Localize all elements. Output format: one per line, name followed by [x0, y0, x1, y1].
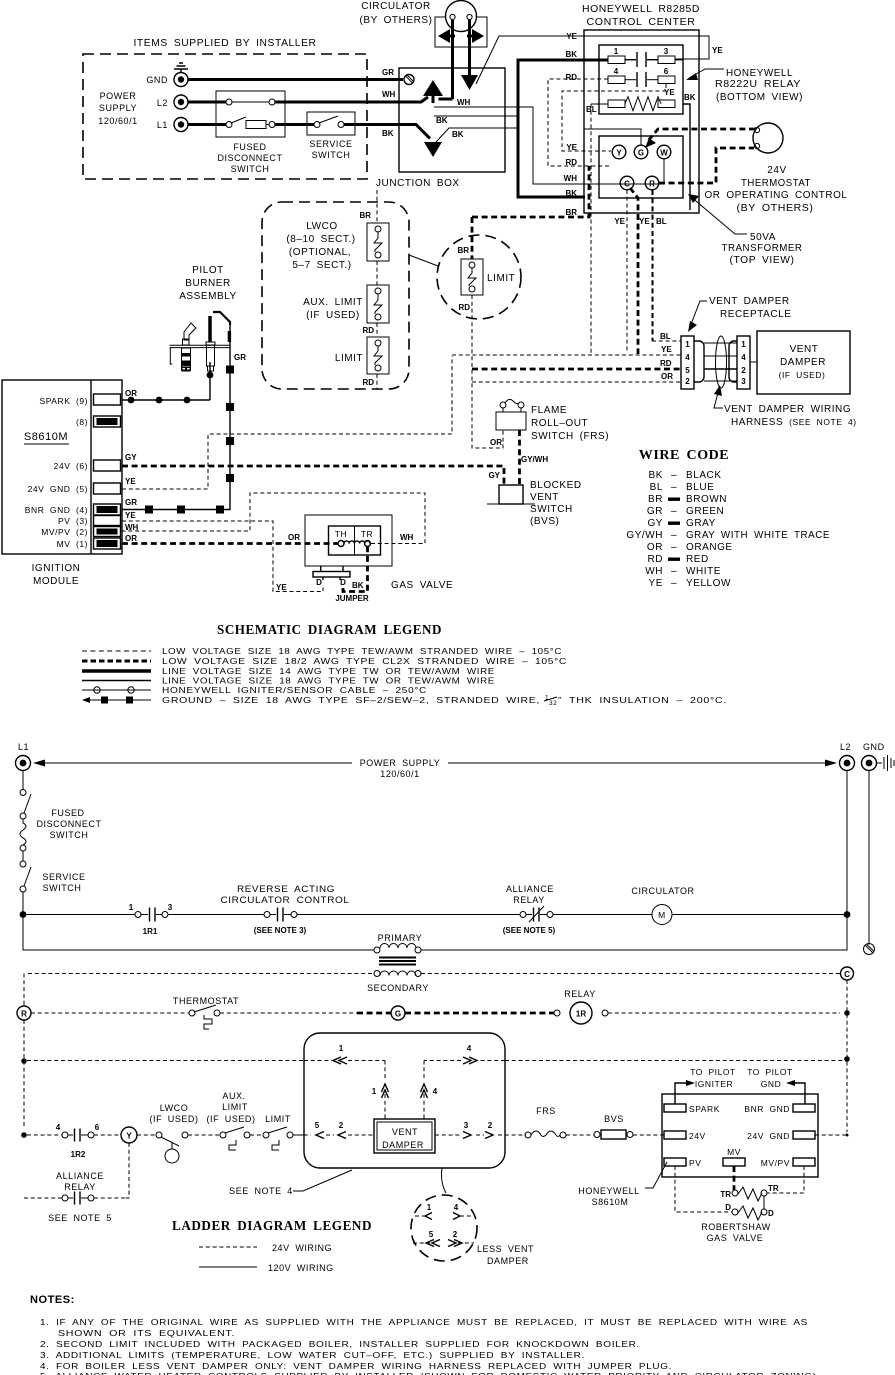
svg-text:4: 4 — [433, 1087, 438, 1096]
svg-text:D: D — [340, 578, 346, 587]
svg-text:HARNESS (SEE NOTE 4): HARNESS (SEE NOTE 4) — [731, 417, 857, 428]
svg-text:BL: BL — [656, 217, 667, 226]
svg-text:TO PILOT: TO PILOT — [747, 1067, 793, 1077]
svg-text:AUX.: AUX. — [222, 1091, 245, 1101]
svg-text:GR: GR — [647, 506, 663, 517]
svg-text:POWER SUPPLY: POWER SUPPLY — [360, 758, 441, 768]
svg-text:5: 5 — [315, 1121, 320, 1130]
svg-text:BR: BR — [648, 494, 663, 505]
svg-text:R: R — [21, 1010, 27, 1019]
svg-text:OR: OR — [288, 533, 300, 542]
svg-text:D: D — [316, 578, 322, 587]
svg-text:BK: BK — [352, 581, 364, 590]
svg-text:RD: RD — [565, 73, 577, 82]
svg-text:1R: 1R — [576, 1010, 586, 1019]
svg-text:(BY OTHERS): (BY OTHERS) — [737, 203, 814, 214]
svg-text:24V: 24V — [767, 165, 786, 176]
svg-text:TO PILOT: TO PILOT — [690, 1067, 736, 1077]
svg-text:2: 2 — [488, 1121, 493, 1130]
svg-text:VENT: VENT — [392, 1127, 418, 1137]
svg-text:LIMIT: LIMIT — [222, 1102, 248, 1112]
svg-text:G: G — [638, 149, 644, 158]
svg-text:BROWN: BROWN — [686, 494, 727, 505]
svg-text:RD: RD — [647, 554, 663, 565]
svg-text:RD: RD — [362, 378, 374, 387]
svg-text:VENT: VENT — [790, 344, 819, 355]
svg-text:BK: BK — [649, 470, 663, 481]
svg-text:SERVICE: SERVICE — [42, 872, 85, 882]
svg-text:MODULE: MODULE — [33, 576, 79, 587]
svg-text:YE: YE — [664, 88, 675, 97]
svg-text:2. SECOND LIMIT INCLUDED WITH: 2. SECOND LIMIT INCLUDED WITH PACKAGED B… — [40, 1339, 640, 1349]
svg-text:RELAY: RELAY — [564, 989, 596, 999]
svg-text:HONEYWELL IGNITER/SENSOR CABLE: HONEYWELL IGNITER/SENSOR CABLE – 250°C — [162, 685, 427, 695]
svg-text:C: C — [844, 970, 850, 979]
svg-text:YE: YE — [712, 46, 723, 55]
svg-text:VENT DAMPER WIRING: VENT DAMPER WIRING — [724, 404, 851, 415]
svg-text:(IF USED): (IF USED) — [149, 1114, 198, 1124]
svg-text:24V GND (5): 24V GND (5) — [28, 484, 88, 494]
svg-text:RELAY: RELAY — [513, 895, 545, 905]
svg-text:BLOCKED: BLOCKED — [530, 480, 582, 491]
svg-text:D: D — [768, 1209, 774, 1218]
svg-text:4: 4 — [467, 1044, 472, 1053]
svg-text:OR: OR — [647, 542, 663, 553]
svg-text:SWITCH: SWITCH — [231, 164, 270, 174]
svg-text:(TOP VIEW): (TOP VIEW) — [730, 255, 795, 266]
svg-text:WH: WH — [564, 174, 578, 183]
svg-text:GRAY: GRAY — [686, 518, 716, 529]
svg-text:BL: BL — [660, 332, 671, 341]
svg-text:CIRCULATOR: CIRCULATOR — [361, 1, 431, 12]
svg-text:SUPPLY: SUPPLY — [99, 103, 137, 113]
svg-text:RD: RD — [362, 326, 374, 335]
svg-text:GND: GND — [146, 75, 168, 85]
svg-text:ALLIANCE: ALLIANCE — [506, 884, 554, 894]
svg-text:YE: YE — [661, 345, 672, 354]
svg-text:BK: BK — [436, 116, 448, 125]
svg-text:24V (6): 24V (6) — [54, 461, 88, 471]
svg-text:24V: 24V — [689, 1131, 706, 1141]
svg-text:DAMPER: DAMPER — [382, 1140, 424, 1150]
svg-text:ROLL–OUT: ROLL–OUT — [531, 418, 588, 429]
svg-text:LIMIT: LIMIT — [265, 1114, 291, 1124]
svg-text:2: 2 — [741, 366, 746, 375]
svg-text:FRS: FRS — [536, 1106, 556, 1116]
svg-text:L2: L2 — [157, 98, 168, 108]
svg-text:4: 4 — [685, 353, 690, 362]
svg-text:FLAME: FLAME — [531, 405, 567, 416]
svg-text:OR: OR — [490, 438, 502, 447]
svg-text:4: 4 — [454, 1203, 459, 1212]
svg-text:GR: GR — [125, 498, 137, 507]
svg-text:LWCO: LWCO — [160, 1103, 189, 1113]
svg-text:120V WIRING: 120V WIRING — [268, 1263, 334, 1273]
svg-text:YE: YE — [639, 217, 650, 226]
svg-text:50VA: 50VA — [750, 232, 776, 243]
svg-text:(BVS): (BVS) — [530, 516, 559, 527]
svg-text:2: 2 — [339, 1121, 344, 1130]
svg-text:OR: OR — [661, 372, 673, 381]
svg-text:–: – — [671, 578, 677, 589]
svg-text:SCHEMATIC DIAGRAM LEGEND: SCHEMATIC DIAGRAM LEGEND — [217, 622, 442, 637]
svg-text:3: 3 — [168, 903, 173, 912]
svg-text:1: 1 — [685, 340, 690, 349]
svg-text:YE: YE — [614, 217, 625, 226]
svg-text:ALLIANCE: ALLIANCE — [56, 1171, 104, 1181]
svg-text:GND: GND — [761, 1079, 782, 1089]
svg-text:W: W — [660, 149, 668, 158]
svg-text:OR OPERATING CONTROL: OR OPERATING CONTROL — [705, 190, 848, 201]
svg-text:MV: MV — [727, 1147, 741, 1157]
svg-text:BK: BK — [565, 50, 577, 59]
svg-text:IGNITION: IGNITION — [32, 563, 81, 574]
svg-text:BR: BR — [457, 246, 469, 255]
svg-text:1R1: 1R1 — [143, 927, 158, 936]
svg-text:L1: L1 — [157, 120, 168, 130]
svg-text:THERMOSTAT: THERMOSTAT — [741, 178, 811, 189]
svg-text:1: 1 — [339, 1044, 344, 1053]
svg-text:SEE NOTE 5: SEE NOTE 5 — [48, 1213, 112, 1223]
svg-text:WH: WH — [382, 90, 396, 99]
svg-text:(BOTTOM VIEW): (BOTTOM VIEW) — [716, 92, 803, 103]
svg-text:BK: BK — [382, 129, 394, 138]
svg-text:120/60/1: 120/60/1 — [98, 116, 137, 126]
svg-text:S8610M: S8610M — [592, 1197, 629, 1207]
svg-text:1: 1 — [614, 47, 619, 56]
svg-text:GY/WH: GY/WH — [521, 455, 548, 464]
svg-text:FUSED: FUSED — [233, 142, 266, 152]
svg-text:WH: WH — [457, 98, 471, 107]
svg-text:HONEYWELL R8285D: HONEYWELL R8285D — [582, 4, 700, 15]
svg-text:SERVICE: SERVICE — [309, 139, 352, 149]
svg-text:DAMPER: DAMPER — [780, 357, 826, 368]
svg-text:BR: BR — [359, 211, 371, 220]
svg-text:BURNER: BURNER — [185, 278, 231, 289]
svg-text:LADDER DIAGRAM LEGEND: LADDER DIAGRAM LEGEND — [172, 1218, 372, 1233]
svg-text:TR: TR — [720, 1190, 731, 1199]
svg-text:SHOWN OR ITS EQUIVALENT.: SHOWN OR ITS EQUIVALENT. — [58, 1328, 235, 1338]
svg-text:REVERSE ACTING: REVERSE ACTING — [237, 884, 335, 894]
svg-text:RELAY: RELAY — [64, 1182, 96, 1192]
svg-text:(IF USED): (IF USED) — [206, 1114, 255, 1124]
svg-text:MV (1): MV (1) — [57, 539, 88, 549]
svg-text:BK: BK — [684, 93, 696, 102]
svg-text:2: 2 — [685, 377, 690, 386]
svg-text:R8222U RELAY: R8222U RELAY — [715, 79, 801, 90]
svg-text:YE: YE — [566, 32, 577, 41]
svg-text:SEE NOTE 4: SEE NOTE 4 — [229, 1186, 293, 1196]
svg-text:LOW VOLTAGE SIZE 18 AWG TYPE T: LOW VOLTAGE SIZE 18 AWG TYPE TEW/AWM STR… — [162, 646, 562, 656]
svg-text:GRAY WITH WHITE TRACE: GRAY WITH WHITE TRACE — [686, 530, 830, 541]
svg-text:WIRE CODE: WIRE CODE — [639, 448, 729, 463]
svg-text:IGNITER: IGNITER — [695, 1079, 733, 1089]
svg-text:OR: OR — [125, 389, 137, 398]
svg-text:TR: TR — [768, 1184, 779, 1193]
svg-text:GROUND – SIZE 18 AWG TYPE SF–2: GROUND – SIZE 18 AWG TYPE SF–2/SEW–2, ST… — [162, 695, 540, 705]
svg-text:LINE VOLTAGE SIZE 18 AWG TYPE: LINE VOLTAGE SIZE 18 AWG TYPE TW OR TEW/… — [162, 676, 495, 686]
svg-text:YE: YE — [276, 583, 287, 592]
svg-text:SECONDARY: SECONDARY — [367, 983, 429, 993]
svg-text:4: 4 — [56, 1123, 61, 1132]
svg-text:GND: GND — [863, 742, 885, 752]
svg-text:GREEN: GREEN — [686, 506, 724, 517]
svg-text:1: 1 — [129, 903, 134, 912]
svg-text:MV/PV (2): MV/PV (2) — [41, 527, 88, 537]
svg-text:CIRCULATOR CONTROL: CIRCULATOR CONTROL — [221, 895, 350, 905]
svg-text:OR: OR — [125, 534, 137, 543]
svg-text:SWITCH: SWITCH — [50, 830, 89, 840]
svg-text:3: 3 — [664, 47, 669, 56]
svg-text:120/60/1: 120/60/1 — [380, 769, 419, 779]
svg-text:AUX. LIMIT: AUX. LIMIT — [303, 297, 363, 308]
svg-text:6: 6 — [95, 1123, 100, 1132]
svg-text:(8–10 SECT.): (8–10 SECT.) — [286, 234, 355, 245]
svg-text:YELLOW: YELLOW — [686, 578, 731, 589]
svg-text:D: D — [725, 1203, 731, 1212]
svg-text:BL: BL — [650, 482, 663, 493]
svg-text:1. IF ANY OF THE ORIGINAL WIRE: 1. IF ANY OF THE ORIGINAL WIRE AS SUPPLI… — [40, 1317, 808, 1327]
svg-text:RED: RED — [686, 554, 709, 565]
svg-text:” THK INSULATION – 200°C.: ” THK INSULATION – 200°C. — [558, 695, 727, 705]
svg-text:PV: PV — [689, 1158, 701, 1168]
svg-text:SPARK (9): SPARK (9) — [40, 396, 89, 406]
svg-text:PV (3): PV (3) — [58, 516, 88, 526]
svg-text:BVS: BVS — [604, 1114, 624, 1124]
svg-text:FUSED: FUSED — [51, 808, 84, 818]
svg-text:CONTROL CENTER: CONTROL CENTER — [587, 17, 696, 28]
svg-text:1: 1 — [741, 340, 746, 349]
svg-text:(OPTIONAL,: (OPTIONAL, — [289, 247, 351, 258]
svg-text:RD: RD — [660, 359, 672, 368]
svg-text:(IF USED): (IF USED) — [306, 310, 360, 321]
svg-text:GY/WH: GY/WH — [626, 530, 663, 541]
svg-text:2: 2 — [453, 1230, 458, 1239]
svg-text:LIMIT: LIMIT — [335, 353, 363, 364]
svg-text:Y: Y — [126, 1132, 132, 1141]
svg-text:24V GND: 24V GND — [747, 1131, 790, 1141]
svg-text:CIRCULATOR: CIRCULATOR — [631, 886, 694, 896]
svg-text:5: 5 — [429, 1230, 434, 1239]
svg-text:PRIMARY: PRIMARY — [378, 933, 423, 943]
svg-text:S8610M: S8610M — [24, 431, 68, 443]
svg-text:4: 4 — [741, 353, 746, 362]
svg-text:LWCO: LWCO — [306, 221, 337, 232]
svg-text:YE: YE — [125, 477, 136, 486]
svg-text:LOW VOLTAGE SIZE 18/2 AWG TYPE: LOW VOLTAGE SIZE 18/2 AWG TYPE CL2X STRA… — [162, 656, 567, 666]
svg-text:TRANSFORMER: TRANSFORMER — [722, 243, 803, 254]
svg-text:LESS VENT: LESS VENT — [477, 1244, 534, 1254]
svg-text:(8): (8) — [76, 417, 88, 427]
svg-text:DAMPER: DAMPER — [487, 1256, 529, 1266]
svg-text:TR: TR — [361, 529, 373, 539]
svg-text:YE: YE — [566, 143, 577, 152]
svg-text:VENT: VENT — [530, 492, 559, 503]
svg-text:4. FOR BOILER LESS VENT DAMPER: 4. FOR BOILER LESS VENT DAMPER ONLY: VEN… — [40, 1361, 672, 1371]
svg-text:LIMIT: LIMIT — [487, 273, 515, 284]
svg-text:GY: GY — [488, 471, 500, 480]
svg-text:LINE VOLTAGE SIZE 14 AWG TYPE: LINE VOLTAGE SIZE 14 AWG TYPE TW OR TEW/… — [162, 666, 495, 676]
svg-text:BK: BK — [452, 130, 464, 139]
svg-text:SPARK: SPARK — [689, 1104, 720, 1114]
svg-text:SWITCH: SWITCH — [43, 883, 82, 893]
svg-text:L2: L2 — [840, 742, 851, 752]
svg-text:6: 6 — [664, 67, 669, 76]
svg-text:(IF USED): (IF USED) — [779, 370, 826, 380]
svg-text:BLACK: BLACK — [686, 470, 722, 481]
svg-text:5: 5 — [685, 366, 690, 375]
svg-text:GY: GY — [125, 453, 137, 462]
svg-text:RD: RD — [565, 158, 577, 167]
svg-text:SWITCH (FRS): SWITCH (FRS) — [531, 431, 609, 442]
svg-text:YE: YE — [125, 511, 136, 520]
svg-text:WH: WH — [400, 533, 414, 542]
svg-text:–: – — [671, 530, 677, 541]
svg-text:M: M — [658, 910, 666, 920]
svg-text:3: 3 — [741, 377, 746, 386]
svg-text:GR: GR — [234, 353, 246, 362]
svg-text:GR: GR — [382, 68, 394, 77]
svg-text:HONEYWELL: HONEYWELL — [578, 1186, 639, 1196]
svg-text:5. ALLIANCE WATER HEATER CONTR: 5. ALLIANCE WATER HEATER CONTROLS SUPPLI… — [40, 1371, 820, 1375]
svg-text:–: – — [671, 542, 677, 553]
svg-text:G: G — [395, 1010, 401, 1019]
svg-text:BLUE: BLUE — [686, 482, 714, 493]
svg-text:DISCONNECT: DISCONNECT — [217, 153, 282, 163]
svg-text:BNR GND: BNR GND — [744, 1104, 790, 1114]
svg-text:POWER: POWER — [100, 91, 137, 101]
svg-text:(SEE NOTE 5): (SEE NOTE 5) — [503, 926, 556, 935]
svg-text:SWITCH: SWITCH — [312, 150, 351, 160]
svg-text:GAS VALVE: GAS VALVE — [707, 1233, 764, 1243]
svg-text:HONEYWELL: HONEYWELL — [726, 68, 793, 79]
svg-text:–: – — [671, 470, 677, 481]
svg-text:NOTES:: NOTES: — [30, 1294, 75, 1306]
svg-text:RECEPTACLE: RECEPTACLE — [720, 309, 791, 320]
svg-text:5–7 SECT.): 5–7 SECT.) — [292, 260, 351, 271]
svg-text:SWITCH: SWITCH — [530, 504, 573, 515]
svg-text:BK: BK — [565, 189, 577, 198]
svg-text:4: 4 — [614, 67, 619, 76]
svg-text:DISCONNECT: DISCONNECT — [36, 819, 101, 829]
svg-text:32: 32 — [549, 700, 557, 707]
svg-text:BNR GND (4): BNR GND (4) — [25, 505, 88, 515]
svg-text:ASSEMBLY: ASSEMBLY — [179, 291, 237, 302]
svg-text:RD: RD — [458, 303, 470, 312]
svg-text:–: – — [671, 482, 677, 493]
svg-text:(SEE NOTE 3): (SEE NOTE 3) — [254, 926, 307, 935]
svg-text:24V WIRING: 24V WIRING — [272, 1243, 332, 1253]
svg-text:Y: Y — [616, 149, 622, 158]
svg-text:THERMOSTAT: THERMOSTAT — [173, 996, 239, 1006]
svg-text:JUNCTION BOX: JUNCTION BOX — [376, 178, 460, 189]
svg-text:L1: L1 — [18, 742, 29, 752]
svg-text:ORANGE: ORANGE — [686, 542, 733, 553]
svg-text:GY: GY — [647, 518, 663, 529]
svg-text:1: 1 — [372, 1087, 377, 1096]
svg-text:1: 1 — [427, 1203, 432, 1212]
svg-text:–: – — [671, 506, 677, 517]
svg-text:ITEMS SUPPLIED BY INSTALLER: ITEMS SUPPLIED BY INSTALLER — [134, 38, 317, 49]
svg-text:MV/PV: MV/PV — [761, 1158, 790, 1168]
svg-text:ROBERTSHAW: ROBERTSHAW — [701, 1222, 771, 1232]
svg-text:YE: YE — [649, 578, 663, 589]
svg-text:WH: WH — [645, 566, 663, 577]
svg-text:3: 3 — [464, 1121, 469, 1130]
svg-text:JUMPER: JUMPER — [335, 594, 369, 603]
svg-text:TH: TH — [335, 529, 347, 539]
svg-text:GAS VALVE: GAS VALVE — [391, 580, 453, 591]
svg-text:WHITE: WHITE — [686, 566, 721, 577]
svg-text:3. ADDITIONAL LIMITS (TEMPERAT: 3. ADDITIONAL LIMITS (TEMPERATURE, LOW W… — [40, 1350, 585, 1360]
svg-text:1R2: 1R2 — [71, 1150, 86, 1159]
svg-text:(BY OTHERS): (BY OTHERS) — [360, 15, 433, 26]
svg-text:PILOT: PILOT — [192, 265, 224, 276]
svg-text:–: – — [671, 566, 677, 577]
svg-text:VENT DAMPER: VENT DAMPER — [709, 296, 790, 307]
